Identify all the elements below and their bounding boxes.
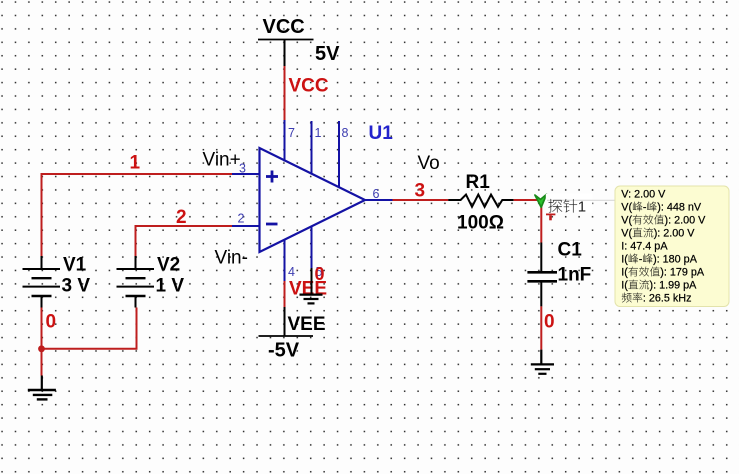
svg-text:): 180 pA: ): 180 pA [653, 254, 698, 266]
svg-text:1: 1 [315, 126, 322, 140]
svg-text:2: 2 [238, 212, 245, 226]
svg-text:V1: V1 [63, 255, 87, 276]
ground (right) [531, 350, 554, 374]
svg-text:I(: I( [621, 254, 628, 266]
wire VCC to pin 7 [284, 66, 286, 120]
svg-text:Vin+: Vin+ [203, 150, 241, 171]
svg-text:1 V: 1 V [156, 276, 185, 297]
svg-text:3 V: 3 V [62, 276, 91, 297]
svg-text:): 2.00 V: ): 2.00 V [654, 228, 696, 240]
svg-text:VCC: VCC [289, 76, 329, 97]
readout row frequency [622, 293, 692, 305]
power symbol VCC [258, 16, 314, 66]
wire net 0 (V1 bottom to ground) [41, 308, 43, 376]
svg-text:0: 0 [315, 264, 325, 284]
pin 7 [285, 120, 296, 162]
wire probe to C1 [540, 243, 542, 272]
ground (bottom left) [28, 376, 56, 400]
svg-text:): 2.00 V: ): 2.00 V [665, 215, 707, 227]
svg-text:1: 1 [578, 199, 586, 216]
readout row V [621, 189, 666, 201]
svg-text:-5V: -5V [268, 340, 300, 362]
wire probe node down [540, 200, 542, 243]
op-amp U1 [260, 148, 366, 252]
readout row I dc [621, 280, 697, 292]
svg-text:VCC: VCC [263, 16, 305, 38]
wire net 2 [136, 226, 233, 257]
pin 8 [339, 121, 349, 188]
svg-text:6: 6 [373, 187, 380, 201]
capacitor C1 [527, 272, 557, 281]
svg-text:Vin-: Vin- [215, 248, 248, 269]
probe 探针1 arrow [535, 194, 547, 207]
wire net 0 (right) [540, 306, 542, 349]
svg-text:0: 0 [46, 312, 57, 333]
pin 3 [232, 162, 260, 176]
readout row V rms [621, 215, 706, 227]
readout row I rms [621, 267, 705, 279]
svg-text:5V: 5V [315, 43, 340, 65]
svg-text:I(: I( [621, 267, 628, 279]
svg-text:R1: R1 [466, 172, 491, 193]
wire C1 to net 0 [540, 283, 542, 307]
svg-text:-: - [639, 254, 643, 266]
svg-text:U1: U1 [369, 123, 394, 144]
svg-text:3: 3 [415, 180, 426, 201]
pin 1 [312, 121, 322, 175]
wire net 3 [393, 199, 449, 201]
junction [38, 345, 45, 352]
wire net 1 [42, 174, 233, 257]
svg-text:100Ω: 100Ω [457, 213, 504, 234]
probe label 探针1 [546, 194, 616, 216]
pin 6 [365, 187, 393, 201]
svg-text:I(: I( [621, 280, 628, 292]
svg-text:-: - [643, 202, 647, 214]
svg-text:: 26.5 kHz: : 26.5 kHz [643, 293, 692, 305]
wire pin 4 to VEE [284, 281, 286, 307]
svg-text:): 1.99 pA: ): 1.99 pA [650, 280, 698, 292]
svg-text:0: 0 [544, 311, 555, 332]
readout row I [621, 241, 668, 253]
pin 4 [285, 240, 296, 282]
svg-text:Vo: Vo [418, 153, 440, 174]
svg-text:C1: C1 [558, 240, 583, 261]
readout row V peak-peak [621, 202, 702, 214]
pin 5 [312, 227, 323, 280]
svg-text:1nF: 1nF [558, 265, 592, 286]
svg-text:V(: V( [621, 228, 632, 240]
svg-text:4: 4 [288, 265, 295, 279]
resistor R1 [448, 195, 514, 207]
probe leader line [547, 199, 616, 201]
readout row I peak-peak [621, 254, 697, 266]
svg-text:V(: V( [621, 215, 632, 227]
wire R1 to probe node [514, 199, 542, 201]
svg-text:VEE: VEE [288, 314, 326, 335]
svg-text:7: 7 [288, 126, 295, 140]
svg-text:): 179 pA: ): 179 pA [660, 267, 705, 279]
probe readout box [615, 186, 729, 307]
svg-text:1: 1 [130, 153, 141, 174]
svg-text:8: 8 [342, 126, 349, 140]
svg-text:I: 47.4 pA: I: 47.4 pA [621, 241, 668, 253]
svg-text:V(: V( [621, 202, 632, 214]
svg-text:): 448 nV: ): 448 nV [657, 202, 702, 214]
svg-text:V2: V2 [157, 255, 180, 276]
readout row V dc [621, 228, 695, 240]
probe reference tick [546, 214, 555, 221]
svg-text:2: 2 [176, 207, 187, 228]
svg-text:V: 2.00 V: V: 2.00 V [621, 189, 666, 201]
battery V1 [23, 256, 61, 308]
ground (pin 5) [300, 268, 323, 303]
power symbol VEE [259, 307, 326, 336]
pin 2 [232, 212, 260, 227]
battery V2 [117, 256, 155, 308]
wire net 0 branch to V2 [42, 308, 137, 349]
